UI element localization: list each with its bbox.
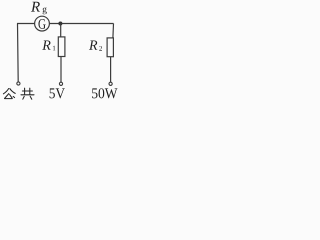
label 50W: [92, 88, 117, 98]
wire R2 top: [112, 24, 115, 39]
label 5V: [50, 88, 65, 98]
resistor R1: [58, 37, 65, 57]
terminal 5V: [59, 82, 62, 85]
wire R1 bottom: [60, 57, 62, 83]
junction node: [58, 22, 62, 26]
label R1: [42, 41, 50, 50]
label R2: [89, 41, 97, 50]
label Rg: [31, 2, 40, 12]
label 公共: [3, 88, 34, 99]
resistor R2: [107, 38, 113, 57]
generator G: [35, 16, 50, 31]
terminal 50W: [109, 82, 112, 85]
wire top middle: [49, 23, 113, 25]
wire top-left horizontal: [17, 23, 35, 25]
wire R1 top: [60, 24, 62, 38]
wire R2 bottom: [110, 57, 112, 82]
wire left vertical: [17, 24, 20, 82]
terminal 公共: [17, 82, 20, 85]
